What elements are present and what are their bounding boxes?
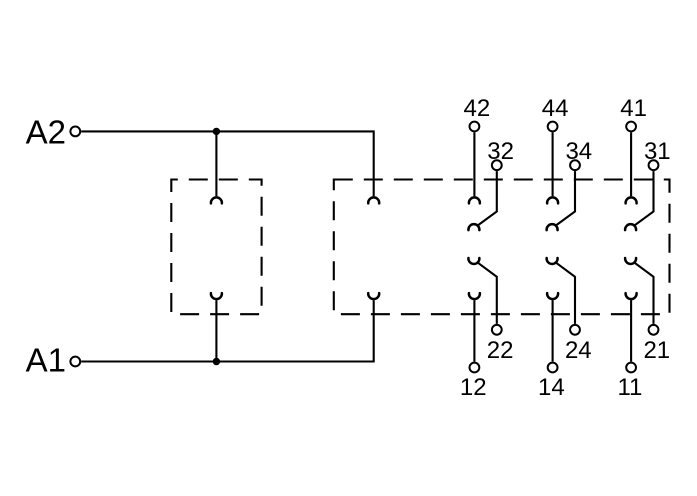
svg-text:A1: A1: [26, 342, 66, 379]
wire terminal 12 to fixed contact: [473, 300, 475, 361]
coil socket top: [211, 197, 222, 203]
wire moving contact to terminal 22: [478, 263, 497, 324]
terminal 42: [470, 122, 480, 132]
terminal 21: [649, 325, 659, 335]
contact block outline (dashed): [334, 180, 670, 315]
fixed contact 42: [469, 197, 480, 203]
terminal 14: [548, 363, 558, 373]
wire moving contact to terminal 21: [635, 263, 654, 324]
moving contact (top, pole 2): [547, 224, 558, 230]
svg-text:32: 32: [487, 138, 514, 165]
wire terminal 44 to fixed contact: [552, 132, 554, 196]
terminal 24: [570, 325, 580, 335]
svg-text:21: 21: [643, 337, 670, 364]
relay coil outline (dashed): [171, 180, 261, 315]
terminal 22: [492, 325, 502, 335]
terminal 34: [570, 160, 580, 170]
fixed contact 41: [626, 197, 637, 203]
block socket bottom (A1 feed): [368, 293, 379, 299]
fixed contact 12: [469, 293, 480, 299]
wire moving contact to terminal 31: [635, 171, 654, 225]
terminal 41: [626, 122, 636, 132]
wire A1 to contact block: [81, 300, 374, 361]
svg-text:12: 12: [460, 374, 487, 401]
wire moving contact to terminal 32: [478, 171, 497, 225]
moving contact (bottom, pole 2): [547, 258, 558, 264]
wire A1 junction to coil socket: [215, 300, 217, 361]
fixed contact 11: [626, 293, 637, 299]
svg-text:22: 22: [487, 337, 514, 364]
wire terminal 41 to fixed contact: [630, 132, 632, 196]
terminal 44: [548, 122, 558, 132]
svg-text:A2: A2: [26, 114, 66, 151]
block socket top (A2 feed): [368, 197, 379, 203]
fixed contact 44: [547, 197, 558, 203]
terminal 12: [470, 363, 480, 373]
wire A2 junction to coil socket: [215, 131, 217, 196]
junction on A2 wire: [213, 128, 220, 135]
wire terminal 42 to fixed contact: [473, 132, 475, 196]
terminal 31: [649, 160, 659, 170]
svg-text:34: 34: [565, 138, 592, 165]
terminal A1: [70, 357, 80, 367]
svg-text:42: 42: [464, 95, 491, 122]
coil socket bottom: [211, 293, 222, 299]
terminal A2: [70, 126, 80, 136]
svg-text:24: 24: [565, 337, 592, 364]
fixed contact 14: [547, 293, 558, 299]
moving contact (top, pole 1): [468, 224, 479, 230]
wire moving contact to terminal 24: [556, 263, 575, 324]
terminal 32: [492, 160, 502, 170]
svg-text:14: 14: [538, 374, 565, 401]
svg-text:11: 11: [617, 374, 642, 401]
moving contact (bottom, pole 1): [468, 258, 479, 264]
svg-text:41: 41: [620, 95, 647, 122]
svg-text:44: 44: [542, 95, 569, 122]
junction on A1 wire: [213, 358, 220, 365]
wire terminal 14 to fixed contact: [552, 300, 554, 361]
svg-text:31: 31: [644, 138, 671, 165]
moving contact (top, pole 3): [625, 224, 636, 230]
moving contact (bottom, pole 3): [625, 258, 636, 264]
wire terminal 11 to fixed contact: [630, 300, 632, 361]
wire moving contact to terminal 34: [556, 171, 575, 225]
terminal 11: [626, 363, 636, 373]
wire A2 to contact block: [81, 131, 374, 196]
